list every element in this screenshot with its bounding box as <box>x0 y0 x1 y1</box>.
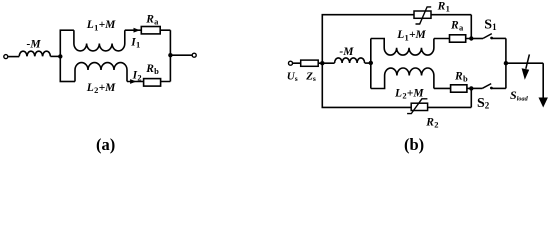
resistor Ra (b) <box>450 35 466 42</box>
wire top rail left (a) <box>60 29 74 31</box>
node junction (a) <box>58 54 62 58</box>
svg-text:(b): (b) <box>404 135 424 154</box>
node load junction (b) <box>504 61 508 65</box>
svg-text:L1+M: L1+M <box>86 19 116 32</box>
terminal left (a) <box>4 55 8 59</box>
wire top rail right (a) <box>125 29 171 31</box>
node Ra junction (b) <box>469 36 473 40</box>
svg-text:L2+M: L2+M <box>394 88 424 101</box>
resistor R2 (b) <box>407 99 428 114</box>
svg-text:L1+M: L1+M <box>396 29 426 42</box>
label L2+M (a) <box>86 82 116 95</box>
arrow load current (b) <box>539 98 548 108</box>
resistor Zs (b) <box>301 60 319 66</box>
wire top branch right (b) <box>434 38 471 40</box>
label -M (a) <box>27 39 42 51</box>
label Ra (a) <box>145 14 159 27</box>
label Ra (b) <box>450 19 464 32</box>
inductor -M (b) <box>335 58 365 63</box>
wire load (b) <box>506 62 543 64</box>
wire top right corner (b) <box>470 15 472 39</box>
wire right vertical (a) <box>169 30 171 81</box>
svg-text:(a): (a) <box>96 135 115 154</box>
wire bottom rail right (a) <box>127 81 170 83</box>
label S1 (b) <box>484 17 497 32</box>
label (a) caption <box>96 135 115 154</box>
svg-text:-M: -M <box>339 46 354 58</box>
wire outer left vertical (b) <box>321 15 323 108</box>
wire bottom rail (b) <box>322 106 472 108</box>
node mid junction (b) <box>369 61 373 65</box>
arrow I2 (a) <box>130 79 136 84</box>
label Zs (b) <box>305 71 316 84</box>
wire load down (b) <box>542 63 544 98</box>
label R1 (b) <box>437 1 450 14</box>
svg-text:L2+M: L2+M <box>86 82 116 95</box>
svg-text:-M: -M <box>27 39 42 51</box>
wire top rail (b) <box>322 14 472 16</box>
label R2 (b) <box>425 116 438 129</box>
wire bottom rail left (a) <box>60 81 76 83</box>
wire to node (a) <box>50 55 60 57</box>
resistor R1 (b) <box>414 7 431 24</box>
label -M (b) <box>339 46 354 58</box>
wire mid vertical (b) <box>370 39 372 89</box>
label Rb (a) <box>145 63 159 76</box>
wire output (a) <box>170 54 192 56</box>
wire input (a) <box>8 56 19 58</box>
resistor Rb (a) <box>144 79 161 87</box>
inductor L1+M (b) <box>371 39 434 56</box>
wire bottom branch right (b) <box>434 87 471 89</box>
inductor L2+M (a) <box>75 63 127 82</box>
switch Sload lever arrow (b) <box>522 54 530 79</box>
terminal source (b) <box>289 61 293 65</box>
label I2 (a) <box>132 70 142 83</box>
node left junction (b) <box>320 61 324 65</box>
arrow I1 (a) <box>134 28 140 33</box>
label L2+M (b) <box>394 88 424 101</box>
inductor L2+M (b) <box>371 68 434 89</box>
wire -M to mid node (b) <box>365 62 371 64</box>
resistor Rb (b) <box>451 85 467 92</box>
switch S2 (b) <box>471 84 506 90</box>
label (b) caption <box>404 135 424 154</box>
label I1 (a) <box>130 37 140 50</box>
label S2 (b) <box>477 96 490 111</box>
terminal right (a) <box>192 53 196 57</box>
node output junction (a) <box>168 53 172 57</box>
wire bottom right corner (b) <box>470 88 472 107</box>
label Us (b) <box>287 71 298 84</box>
wire source (b) <box>293 62 335 64</box>
label L1+M (b) <box>396 29 426 42</box>
inductor -M (a) <box>19 51 50 56</box>
switch S1 (b) <box>471 34 506 40</box>
label L1+M (a) <box>86 19 116 32</box>
label Rb (b) <box>454 71 468 84</box>
inductor L1+M (a) <box>74 30 125 51</box>
node Rb junction (b) <box>469 86 473 90</box>
wire right rail (b) <box>505 38 507 88</box>
label Sload (b) <box>510 88 529 103</box>
wire left vertical (a) <box>59 30 61 81</box>
resistor Ra (a) <box>141 27 160 34</box>
